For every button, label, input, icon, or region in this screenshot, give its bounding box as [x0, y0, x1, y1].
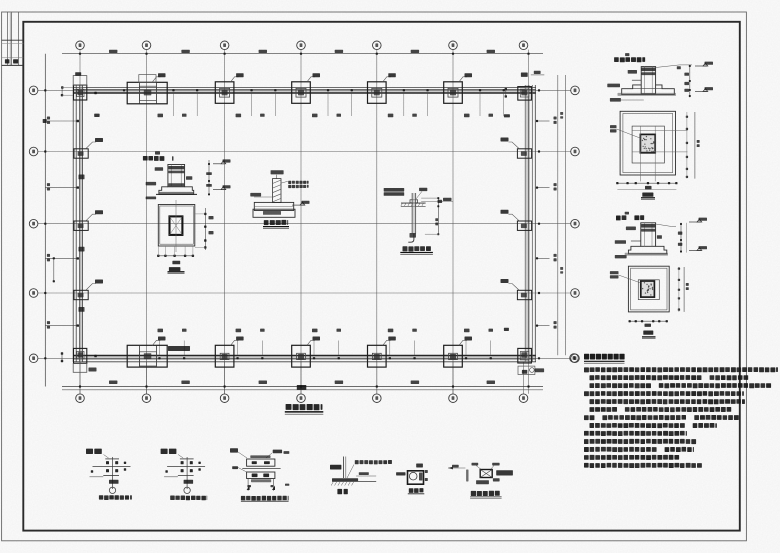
right detail section 1 title	[614, 53, 645, 62]
plan title foundation layout	[285, 404, 324, 414]
bottom detail wind column B5	[396, 464, 428, 494]
detail foundation section in plan	[143, 151, 231, 199]
wall column footing right row 2	[501, 138, 532, 159]
footing J-1 bottom axis 5	[368, 337, 396, 368]
right detail section 1	[607, 62, 713, 102]
wall column footing right row 4	[501, 279, 532, 300]
top dimension chain	[62, 50, 543, 55]
right dimension chains	[538, 75, 565, 359]
axis bubbles top 1-7	[76, 41, 528, 50]
footing J-1 bottom axis 4	[292, 337, 320, 368]
footing J-1 top axis 4	[292, 73, 320, 103]
footing J-1 bottom axis 3	[215, 337, 243, 368]
notes text lines	[584, 367, 778, 468]
axis bubbles right A-E	[571, 86, 580, 363]
bottom dimension chain 30000	[62, 381, 543, 390]
bottom detail prestressed tie B3	[230, 448, 289, 501]
corner footing axis1 bottom	[61, 348, 97, 372]
footing J-1 bottom axis 6	[444, 337, 472, 368]
corner footing axis7 bottom	[518, 348, 544, 374]
top wall opening ticks	[94, 89, 505, 117]
left wall along axis 1	[73, 85, 82, 362]
footing J-1 top axis 6	[444, 73, 472, 103]
wall column footing left row 4	[74, 280, 103, 312]
right detail footing plan J-1	[610, 111, 700, 199]
footing J-1 top axis 2	[127, 73, 167, 104]
right detail section 2	[615, 218, 707, 259]
wall column footing left row 3	[74, 210, 103, 251]
detail anchor bolt embed M16	[384, 188, 453, 255]
wall column footing right row 3	[501, 210, 532, 231]
detail footing plan 1-1 in plan	[157, 200, 213, 273]
right detail section 2 title	[616, 212, 644, 221]
footing J-1 top axis 5	[368, 73, 396, 103]
bottom detail steel column base B4	[330, 457, 392, 495]
footing J-1 bottom axis 2	[127, 337, 167, 368]
label jiao gang zhu	[168, 346, 190, 351]
axis bubbles left A-E	[29, 86, 38, 363]
wall column footing left row 2	[74, 138, 103, 179]
left mid-row dim marks	[43, 114, 100, 327]
axis bubbles bottom 1-7	[76, 362, 528, 403]
corner footing axis7 top	[505, 71, 545, 100]
detail brick wall foundation	[250, 170, 309, 228]
grid axis lines horizontal A-E	[38, 90, 571, 358]
bottom detail column splice B6	[448, 463, 513, 499]
right mid-row dim marks	[504, 114, 550, 331]
footing J-1 top axis 3	[215, 73, 243, 103]
bottom detail base plate B1	[86, 449, 132, 500]
notes title	[570, 354, 625, 364]
bottom wall along axis A	[73, 356, 536, 362]
bottom wall opening ticks	[94, 329, 493, 360]
top wall along axis E	[73, 88, 536, 93]
right detail footing plan J-2	[610, 266, 689, 339]
bottom detail base plate B2	[161, 449, 208, 501]
corner footing axis1 top	[61, 72, 87, 100]
grid axis lines vertical 1-7	[80, 50, 529, 394]
left dimension chain	[44, 54, 50, 387]
right wall along axis 7	[525, 85, 535, 362]
